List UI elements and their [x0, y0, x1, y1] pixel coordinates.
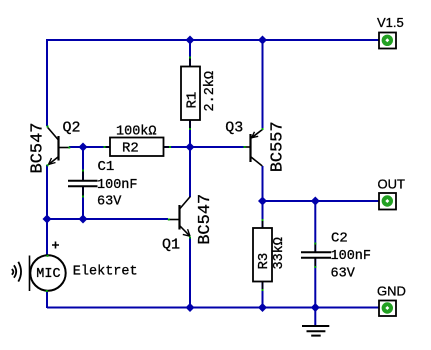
svg-text:GND: GND [377, 284, 406, 299]
node Q1 emitter bottom rail [186, 303, 195, 312]
svg-text:100nF: 100nF [331, 249, 372, 264]
svg-text:BC547: BC547 [196, 194, 215, 245]
wire Q2 base row (to R2 left) [69, 146, 110, 148]
svg-text:100kΩ: 100kΩ [116, 125, 157, 140]
svg-text:Q2: Q2 [63, 120, 81, 137]
node C2 top [311, 197, 320, 206]
wire R3 bottom lead [262, 281, 264, 308]
svg-text:2.2kΩ: 2.2kΩ [203, 71, 218, 112]
svg-text:C1: C1 [98, 159, 115, 175]
node Q3 collector OUT row [258, 197, 267, 206]
svg-text:OUT: OUT [378, 177, 406, 192]
svg-text:R2: R2 [122, 141, 139, 157]
svg-text:C2: C2 [331, 230, 348, 246]
wire junction down to MIC [46, 219, 48, 256]
wire R3 top lead [262, 201, 264, 229]
node Q2 base C1 [79, 143, 88, 152]
wire bottom rail [47, 307, 380, 309]
resistor R3 [253, 219, 272, 290]
wire C2 top lead [314, 201, 316, 252]
wire left vertical upper (to Q2 collector) [46, 39, 48, 126]
node lead joints (green connection points) [46, 57, 317, 293]
wire Q3 collector down to OUT row [262, 166, 264, 201]
svg-text:R3: R3 [256, 253, 272, 270]
terminal GND [379, 301, 396, 317]
transistor Q3 [244, 130, 262, 167]
terminal OUT [379, 193, 396, 210]
svg-text:Q3: Q3 [225, 120, 243, 137]
svg-text:100nF: 100nF [97, 178, 138, 193]
svg-text:Q1: Q1 [162, 237, 180, 254]
wire Q1 emitter down to bottom rail [189, 237, 191, 308]
svg-text:MIC: MIC [36, 267, 60, 282]
svg-text:33kΩ: 33kΩ [272, 237, 287, 269]
svg-text:BC557: BC557 [269, 121, 288, 172]
node top rail R1 [186, 36, 195, 45]
svg-text:63V: 63V [331, 267, 356, 282]
capacitor C1 [68, 170, 98, 196]
svg-text:Elektret: Elektret [73, 264, 138, 279]
resistor R1 [181, 57, 200, 129]
wire Q2 emitter down to junction [46, 165, 48, 219]
wire C1 row (left wire to Q1 base) [47, 218, 168, 220]
wire C1 bottom lead [82, 187, 84, 219]
svg-text:63V: 63V [97, 195, 122, 210]
wire Q3 emitter up to top rail [262, 40, 264, 129]
wire C1 top lead [82, 147, 84, 180]
label plus [52, 242, 59, 249]
node R1 bottom R2 right [186, 143, 195, 152]
node top rail Q3 [258, 36, 267, 45]
node left wire C1 row [43, 215, 52, 224]
capacitor C2 [301, 243, 331, 267]
wire MIC bottom to bottom rail [46, 291, 48, 308]
wire OUT row [263, 200, 381, 202]
node C2 bottom ground [311, 303, 320, 312]
microphone MIC [12, 255, 66, 291]
wire R1 top lead [189, 40, 191, 67]
wire top rail [47, 39, 380, 41]
wire R1 bottom to junction to Q1 collector [189, 120, 191, 197]
svg-text:R1: R1 [185, 92, 201, 109]
svg-text:V1.5: V1.5 [377, 15, 404, 30]
transistor Q2 [48, 128, 70, 165]
wire C2 bottom lead [314, 258, 316, 308]
wire R2 right to junction to Q3 base [163, 146, 245, 148]
node R3 bottom rail [258, 303, 267, 312]
transistor Q1 [169, 197, 191, 237]
terminal V1.5 [379, 33, 396, 49]
wire ground stem [314, 308, 316, 326]
node C1 bottom [79, 215, 88, 224]
ground [302, 326, 329, 336]
resistor R2 [104, 138, 170, 157]
svg-text:BC547: BC547 [29, 122, 48, 173]
